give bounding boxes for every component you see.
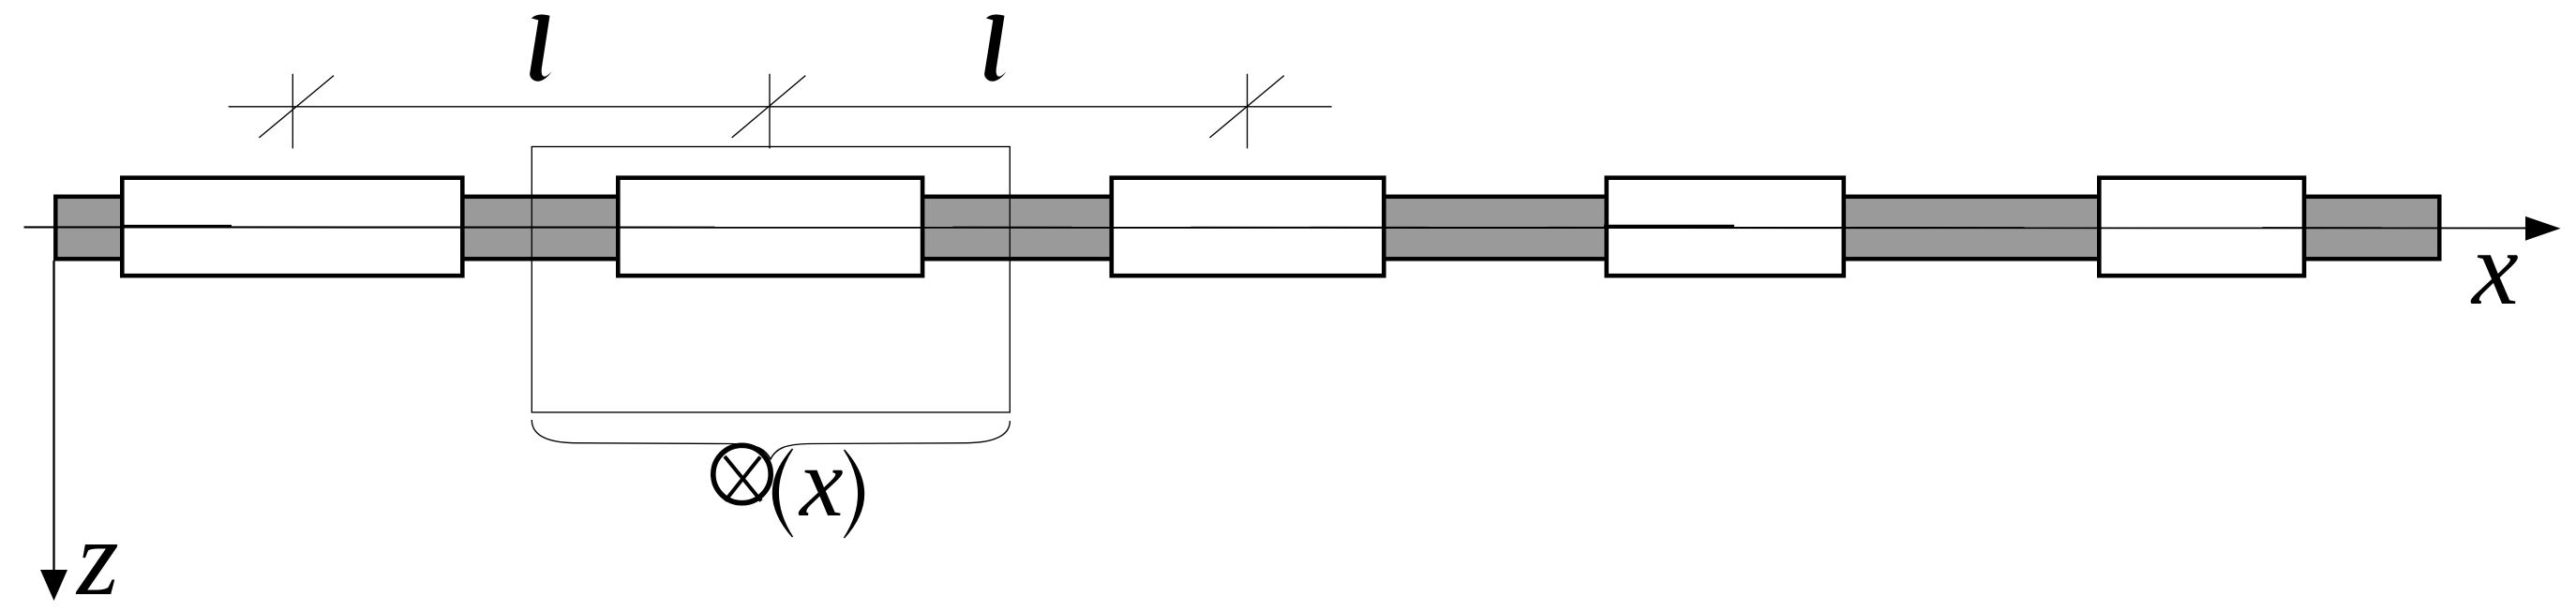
dimension tick 2 (732, 74, 806, 149)
crossed-circle symbol (713, 445, 771, 502)
white block 1 (122, 178, 462, 276)
dimension tick 3 (1210, 74, 1284, 149)
white block 4 (1607, 178, 1844, 276)
underbrace (532, 420, 1010, 459)
svg-text:z: z (75, 499, 119, 611)
label l right (984, 15, 1007, 82)
svg-text:x: x (798, 427, 844, 537)
white block 5 (2099, 178, 2304, 276)
z-axis line (52, 261, 54, 574)
white block 2 (618, 178, 922, 276)
svg-text:x: x (2470, 211, 2519, 327)
z-axis arrowhead (40, 570, 67, 601)
dimension line (229, 106, 1332, 108)
label l left (530, 15, 552, 82)
axis thick segment mid (1604, 225, 1734, 228)
axis thick segment left (120, 225, 232, 228)
unit cell outline box (532, 147, 1010, 413)
x-axis arrowhead (2525, 216, 2561, 241)
dimension tick 1 (259, 74, 334, 149)
x-axis line (24, 226, 2528, 229)
white block 3 (1112, 178, 1385, 276)
gray shaft bar (55, 197, 2439, 259)
label (x) (773, 427, 864, 538)
